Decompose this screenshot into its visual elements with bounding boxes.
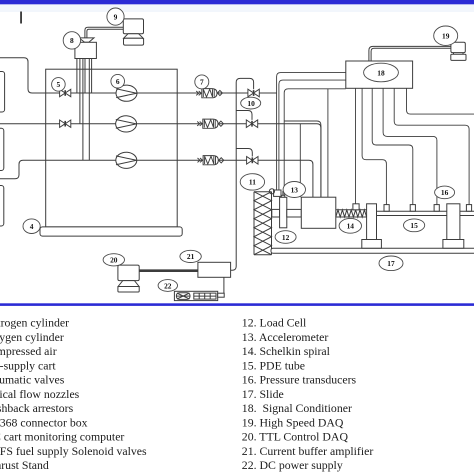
svg-text:17. Slide: 17. Slide [242,387,284,401]
wire box18 left to head W3 [284,89,346,195]
wire box18 to computer19 [369,46,451,61]
svg-text:18: 18 [377,68,385,77]
computer 19 base [451,54,466,60]
svg-text:16. Pressure transducers: 16. Pressure transducers [242,373,357,387]
connector bar right arm [287,209,302,217]
pneumatic valve on pipe2 [60,120,66,127]
head inlet box A [274,190,281,196]
label ellipse 21 [180,250,201,262]
svg-text:19. High Speed DAQ: 19. High Speed DAQ [242,415,344,429]
computer 19 monitor [451,42,465,52]
wire bus stub to valve2 [236,111,252,120]
critical flow nozzle on pipe2 [116,116,137,132]
label ellipse 11 [240,174,264,190]
figure tick I [20,12,22,24]
flashback arrestor on pipe3 [198,156,224,165]
label ellipse 18 [364,63,399,82]
svg-text:6: 6 [116,77,120,86]
label ellipse 12 [275,231,296,244]
svg-text:8: 8 [70,36,74,45]
svg-text:11. Thrust Stand: 11. Thrust Stand [0,458,49,472]
wire box18 to S4 [383,88,437,204]
DC power supply box 22 [174,291,217,300]
svg-text:10. PDEFS fuel supply Solenoid: 10. PDEFS fuel supply Solenoid valves [0,444,147,458]
legend right column [242,316,374,473]
svg-text:17: 17 [387,259,395,268]
svg-text:6. Critical flow nozzles: 6. Critical flow nozzles [0,387,80,401]
oxygen cylinder 2 [0,128,4,170]
solenoid valve on pipe2 [246,120,252,128]
wire air supply line pipe3 [0,160,313,197]
pressure transducer S4 [434,205,439,212]
svg-text:19: 19 [442,32,450,41]
light blue band [0,4,474,12]
svg-text:5: 5 [57,80,61,89]
svg-text:9: 9 [114,12,118,21]
combustor head block [301,197,336,228]
svg-text:15. PDE tube: 15. PDE tube [242,358,305,372]
svg-text:18. Signal Conditioner: 18. Signal Conditioner [242,401,352,415]
tube support post 2 [447,204,460,240]
battery glyph [194,293,216,299]
compressed air cylinder 3 [0,186,4,227]
coil top hook [269,189,274,194]
solenoid valve on pipe3 [247,157,253,165]
label ellipse 19 [434,26,458,45]
wire N2 supply line [0,58,277,93]
connector box 8 funnel [79,38,94,42]
gas-supply cart box 4 [46,69,178,227]
load cell plate [280,197,287,228]
label ellipse 16 [435,186,455,199]
accelerometer stub 13 [281,195,285,197]
connector box 8 [75,42,97,58]
current buffer amplifier box 21 [198,262,231,277]
bottom blue separator [0,303,474,306]
pressure transducer S3 [410,205,415,212]
top blue banner [0,0,474,4]
svg-text:10: 10 [247,99,255,108]
label ellipse 17 [379,256,403,271]
wire drop to block at 300.3 [299,124,301,198]
wire drop to block from y88.8 [327,89,329,197]
wire monitor9 cable [85,27,123,38]
load cell left arm [272,209,280,217]
wire solenoid control bus [231,78,254,270]
critical flow nozzle on pipe1 [116,85,137,101]
schelkin spiral zigzag [336,210,367,217]
svg-text:16: 16 [441,188,449,197]
label circle 6 [111,74,125,88]
label ellipse 22 [158,280,177,292]
fan glyph [176,293,190,300]
svg-text:11: 11 [249,178,256,187]
svg-text:3. Compressed air: 3. Compressed air [0,344,57,358]
computer 20 monitor [118,265,139,281]
svg-text:13: 13 [291,185,299,194]
label ellipse 10 [241,97,261,109]
svg-text:4. Gas-supply cart: 4. Gas-supply cart [0,358,56,372]
label ellipse 14 [339,218,361,233]
svg-text:20: 20 [110,256,118,265]
wire short link y121 [284,121,321,197]
svg-text:13. Accelerometer: 13. Accelerometer [242,330,329,344]
wire thick cable 20-21 [139,269,198,272]
label circle 7 [195,75,209,89]
svg-text:7. Flashback arrestors: 7. Flashback arrestors [0,401,74,415]
svg-text:2. Oxygen cylinder: 2. Oxygen cylinder [0,330,64,344]
computer 9 monitor [123,19,143,34]
svg-text:14: 14 [347,222,355,231]
svg-text:7: 7 [200,78,204,87]
svg-text:20. TTL Control DAQ: 20. TTL Control DAQ [242,430,349,444]
svg-text:14. Schelkin spiral: 14. Schelkin spiral [242,344,331,358]
label ellipse 15 [404,219,425,232]
wire box18 bottom to S1 [355,88,357,204]
label circle 8 [63,32,80,49]
svg-text:22. DC power supply: 22. DC power supply [242,458,343,472]
wire bus stub to valve3 [236,149,252,157]
wire 21 to 22 [223,277,225,293]
svg-text:1. Nitrogen cylinder: 1. Nitrogen cylinder [0,316,69,330]
label circle 5 [52,78,66,92]
tube support post 1 [367,204,377,240]
wire box18 left to head W2 [279,80,346,190]
flashback arrestor on pipe2 [197,119,223,128]
wire bundle from box 8 [76,59,78,94]
svg-text:22: 22 [164,281,172,290]
wire box18 to S2 [362,88,386,204]
signal conditioner box 18 [346,61,413,88]
label circle 4 [23,219,40,234]
svg-text:9. GSC cart monitoring compute: 9. GSC cart monitoring computer [0,430,124,444]
label circle 9 [107,8,124,25]
critical flow nozzle on pipe3 [116,152,137,168]
label ellipse 13 [283,182,305,198]
cart shelf [40,227,182,236]
wire box18 to S3 [372,88,413,204]
schelkin spiral 14 top line [336,209,367,211]
svg-text:15: 15 [410,221,418,230]
svg-text:21. Current buffer amplifier: 21. Current buffer amplifier [242,444,374,458]
svg-text:4: 4 [30,222,34,231]
solenoid valve 10 on pipe1 [248,89,254,97]
box22 right nub [218,293,225,297]
wire box18 offcanvas [407,88,474,114]
pressure transducer S2 [384,205,389,212]
svg-text:12. Load Cell: 12. Load Cell [242,316,307,330]
wire O2 supply line pipe2 [0,124,321,198]
PDE tube 15 [367,210,474,212]
pneumatic valve 5 on pipe1 [60,89,66,96]
svg-text:12: 12 [282,233,290,242]
slide rail 17 [271,248,474,253]
thrust stand coil 11 [253,192,255,255]
nitrogen cylinder 1 [0,72,5,113]
svg-text:21: 21 [187,252,195,261]
svg-text:5. Pneumatic valves: 5. Pneumatic valves [0,373,65,387]
wire box18 to S5 [394,88,469,204]
pressure transducer S1 [353,204,359,210]
accelerometer pin [282,191,284,196]
wire box18 left to head W1 [277,73,346,190]
label ellipse 20 [103,254,124,266]
flashback arrestor on pipe1 [196,89,222,98]
svg-text:8. SCB-368 connector box: 8. SCB-368 connector box [0,415,88,429]
pressure transducer S5 [466,205,471,212]
schelkin spiral bottom line [336,216,367,218]
legend left column [0,316,147,473]
